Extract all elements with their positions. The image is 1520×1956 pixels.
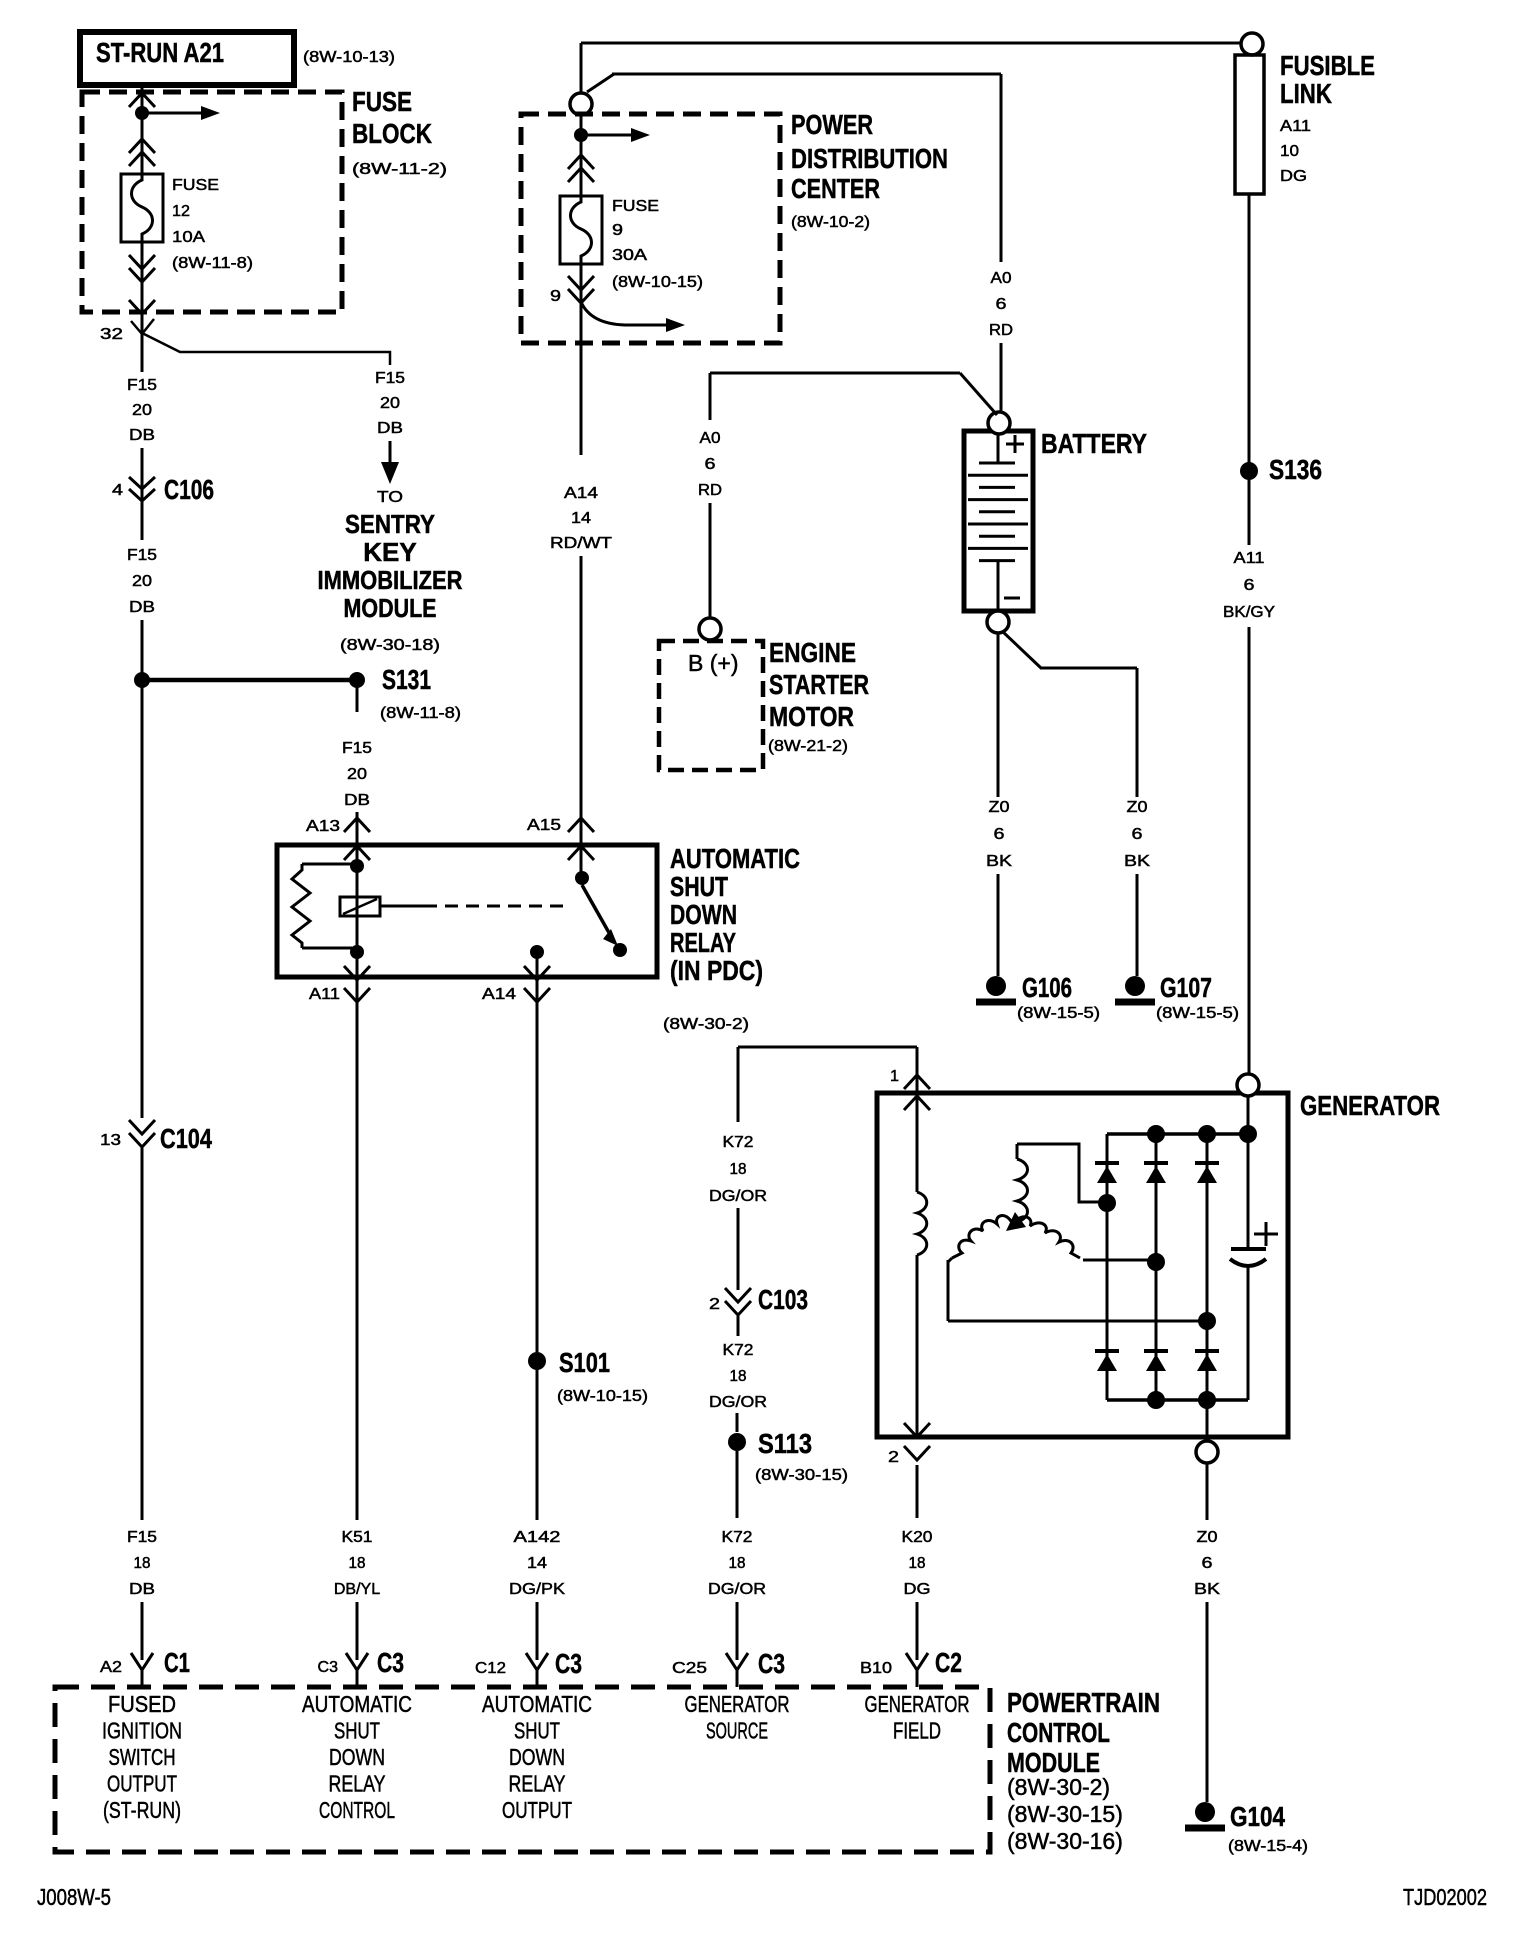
svg-text:14: 14	[571, 510, 591, 527]
svg-text:DOWN: DOWN	[509, 1744, 565, 1770]
svg-text:2: 2	[709, 1296, 720, 1313]
svg-text:POWERTRAIN: POWERTRAIN	[1007, 1687, 1160, 1718]
svg-text:K72: K72	[722, 1529, 753, 1546]
svg-text:Z0: Z0	[1127, 799, 1148, 816]
svg-text:C25: C25	[672, 1660, 707, 1677]
svg-text:13: 13	[100, 1132, 121, 1149]
svg-text:MODULE: MODULE	[344, 593, 437, 623]
svg-text:DB: DB	[129, 1581, 155, 1598]
svg-text:G107: G107	[1160, 972, 1212, 1003]
svg-text:20: 20	[132, 573, 152, 590]
svg-text:6: 6	[1202, 1555, 1213, 1572]
svg-text:4: 4	[112, 482, 123, 499]
svg-text:(8W-11-2): (8W-11-2)	[352, 161, 447, 178]
svg-text:C3: C3	[377, 1647, 404, 1678]
svg-text:Z0: Z0	[989, 799, 1010, 816]
svg-text:(8W-10-13): (8W-10-13)	[303, 49, 395, 66]
svg-text:FUSE: FUSE	[172, 177, 219, 194]
svg-text:6: 6	[996, 296, 1007, 313]
svg-text:14: 14	[527, 1555, 547, 1572]
svg-text:18: 18	[730, 1368, 747, 1385]
svg-text:6: 6	[994, 826, 1005, 843]
svg-text:FUSE: FUSE	[612, 198, 659, 215]
svg-text:SWITCH: SWITCH	[109, 1744, 176, 1770]
svg-text:(8W-15-5): (8W-15-5)	[1017, 1005, 1100, 1022]
svg-text:(8W-10-15): (8W-10-15)	[612, 274, 703, 291]
svg-text:18: 18	[134, 1555, 151, 1572]
svg-text:C3: C3	[555, 1648, 582, 1679]
svg-text:BK: BK	[1124, 853, 1150, 870]
svg-text:A142: A142	[514, 1529, 561, 1546]
svg-text:J008W-5: J008W-5	[37, 1884, 111, 1910]
svg-text:(8W-15-4): (8W-15-4)	[1228, 1838, 1308, 1855]
svg-text:FUSED: FUSED	[108, 1691, 176, 1717]
svg-text:RD: RD	[989, 322, 1013, 339]
svg-text:F15: F15	[127, 377, 157, 394]
svg-text:A0: A0	[700, 430, 721, 447]
svg-text:A13: A13	[306, 818, 340, 835]
svg-text:FIELD: FIELD	[893, 1718, 941, 1744]
svg-text:F15: F15	[375, 370, 405, 387]
svg-text:(8W-30-2): (8W-30-2)	[663, 1016, 749, 1033]
svg-text:SHUT: SHUT	[514, 1718, 560, 1744]
svg-text:(8W-30-15): (8W-30-15)	[755, 1467, 848, 1484]
svg-text:A14: A14	[564, 485, 598, 502]
svg-text:K72: K72	[723, 1134, 754, 1151]
svg-text:DG: DG	[904, 1581, 931, 1598]
svg-text:CONTROL: CONTROL	[1007, 1717, 1110, 1748]
svg-text:A2: A2	[100, 1659, 122, 1676]
svg-text:DOWN: DOWN	[329, 1744, 385, 1770]
svg-text:GENERATOR: GENERATOR	[685, 1691, 790, 1717]
svg-text:SHUT: SHUT	[334, 1718, 380, 1744]
svg-text:G104: G104	[1230, 1801, 1285, 1832]
svg-text:A11: A11	[309, 986, 340, 1003]
svg-text:F15: F15	[342, 740, 372, 757]
svg-text:DG/OR: DG/OR	[709, 1394, 767, 1411]
svg-text:(8W-11-8): (8W-11-8)	[380, 705, 461, 722]
svg-text:30A: 30A	[612, 247, 647, 264]
svg-text:(8W-11-8): (8W-11-8)	[172, 255, 253, 272]
svg-text:B (+): B (+)	[688, 650, 738, 676]
svg-text:TJD02002: TJD02002	[1403, 1884, 1487, 1910]
svg-text:Z0: Z0	[1197, 1529, 1218, 1546]
svg-text:G106: G106	[1022, 972, 1072, 1003]
svg-text:6: 6	[705, 456, 716, 473]
svg-text:ENGINE: ENGINE	[769, 637, 856, 668]
svg-text:OUTPUT: OUTPUT	[107, 1771, 177, 1797]
svg-text:AUTOMATIC: AUTOMATIC	[670, 843, 800, 874]
svg-text:(ST-RUN): (ST-RUN)	[103, 1797, 181, 1823]
svg-text:C1: C1	[164, 1647, 190, 1678]
svg-text:18: 18	[730, 1161, 747, 1178]
svg-text:18: 18	[909, 1555, 926, 1572]
svg-text:S113: S113	[758, 1428, 812, 1459]
svg-text:SENTRY: SENTRY	[345, 509, 435, 539]
svg-text:KEY: KEY	[363, 537, 416, 567]
svg-text:C3: C3	[318, 1659, 339, 1676]
svg-text:A14: A14	[482, 986, 516, 1003]
svg-text:10: 10	[1280, 143, 1299, 160]
svg-text:9: 9	[550, 288, 561, 305]
svg-text:DOWN: DOWN	[670, 899, 737, 930]
svg-text:10A: 10A	[172, 229, 205, 246]
svg-text:RD: RD	[698, 482, 722, 499]
svg-text:9: 9	[612, 222, 623, 239]
svg-text:BK: BK	[986, 853, 1012, 870]
svg-text:DB: DB	[377, 420, 403, 437]
svg-text:K51: K51	[342, 1529, 373, 1546]
svg-text:RELAY: RELAY	[670, 927, 736, 958]
svg-text:32: 32	[100, 326, 123, 343]
svg-text:6: 6	[1132, 826, 1143, 843]
svg-text:(8W-30-15): (8W-30-15)	[1007, 1801, 1123, 1827]
svg-text:FUSE: FUSE	[352, 86, 412, 117]
svg-text:BK/GY: BK/GY	[1223, 604, 1275, 621]
svg-text:(8W-10-2): (8W-10-2)	[791, 214, 870, 231]
svg-text:(IN PDC): (IN PDC)	[670, 955, 763, 986]
svg-text:F15: F15	[127, 547, 157, 564]
svg-text:RELAY: RELAY	[329, 1771, 386, 1797]
svg-text:(8W-30-18): (8W-30-18)	[340, 637, 440, 654]
svg-text:MOTOR: MOTOR	[769, 701, 854, 732]
svg-text:(8W-30-2): (8W-30-2)	[1007, 1774, 1110, 1800]
svg-text:BLOCK: BLOCK	[352, 118, 432, 149]
svg-text:DG/PK: DG/PK	[509, 1581, 565, 1598]
svg-text:(8W-10-15): (8W-10-15)	[557, 1388, 648, 1405]
svg-text:C3: C3	[758, 1648, 785, 1679]
svg-text:C12: C12	[475, 1660, 506, 1677]
svg-text:IGNITION: IGNITION	[102, 1718, 182, 1744]
svg-text:(8W-15-5): (8W-15-5)	[1156, 1005, 1239, 1022]
svg-text:IMMOBILIZER: IMMOBILIZER	[318, 565, 463, 595]
svg-text:CONTROL: CONTROL	[319, 1797, 395, 1823]
svg-text:S131: S131	[382, 664, 431, 695]
svg-text:SHUT: SHUT	[670, 871, 728, 902]
svg-text:TO: TO	[377, 489, 403, 506]
svg-text:2: 2	[888, 1449, 899, 1466]
svg-text:20: 20	[380, 395, 400, 412]
svg-text:SOURCE: SOURCE	[706, 1718, 768, 1744]
svg-text:C104: C104	[160, 1123, 212, 1154]
svg-text:FUSIBLE: FUSIBLE	[1280, 50, 1375, 81]
svg-text:B10: B10	[860, 1660, 892, 1677]
svg-text:18: 18	[729, 1555, 746, 1572]
svg-text:STARTER: STARTER	[769, 669, 869, 700]
svg-text:LINK: LINK	[1280, 78, 1332, 109]
svg-text:GENERATOR: GENERATOR	[865, 1691, 970, 1717]
svg-text:ST-RUN A21: ST-RUN A21	[96, 37, 224, 68]
svg-text:K72: K72	[723, 1342, 754, 1359]
svg-text:S136: S136	[1269, 454, 1322, 485]
svg-text:DISTRIBUTION: DISTRIBUTION	[791, 143, 948, 174]
svg-text:DB/YL: DB/YL	[334, 1581, 380, 1598]
svg-text:DG: DG	[1280, 168, 1307, 185]
svg-text:BATTERY: BATTERY	[1041, 428, 1147, 459]
svg-text:6: 6	[1244, 577, 1255, 594]
svg-text:C106: C106	[164, 474, 214, 505]
svg-text:DB: DB	[129, 427, 155, 444]
svg-text:DB: DB	[129, 599, 155, 616]
svg-text:BK: BK	[1194, 1581, 1220, 1598]
svg-text:A0: A0	[991, 270, 1012, 287]
svg-text:C2: C2	[935, 1647, 962, 1678]
svg-text:CENTER: CENTER	[791, 173, 880, 204]
svg-text:(8W-30-16): (8W-30-16)	[1007, 1828, 1123, 1854]
svg-text:20: 20	[347, 766, 367, 783]
svg-text:A11: A11	[1280, 118, 1311, 135]
svg-text:OUTPUT: OUTPUT	[502, 1797, 572, 1823]
svg-text:20: 20	[132, 402, 152, 419]
svg-text:RD/WT: RD/WT	[550, 535, 612, 552]
svg-text:GENERATOR: GENERATOR	[1300, 1090, 1440, 1121]
svg-text:C103: C103	[758, 1284, 808, 1315]
svg-text:12: 12	[172, 203, 190, 220]
svg-text:A15: A15	[527, 817, 561, 834]
svg-text:DG/OR: DG/OR	[708, 1581, 766, 1598]
svg-text:18: 18	[349, 1555, 366, 1572]
svg-text:DB: DB	[344, 792, 370, 809]
svg-text:DG/OR: DG/OR	[709, 1188, 767, 1205]
svg-text:RELAY: RELAY	[509, 1771, 566, 1797]
svg-text:K20: K20	[902, 1529, 933, 1546]
svg-text:1: 1	[890, 1068, 899, 1085]
svg-text:A11: A11	[1234, 550, 1265, 567]
svg-text:S101: S101	[559, 1347, 610, 1378]
svg-text:AUTOMATIC: AUTOMATIC	[302, 1691, 412, 1717]
svg-text:F15: F15	[127, 1529, 157, 1546]
svg-text:(8W-21-2): (8W-21-2)	[768, 738, 848, 755]
svg-text:POWER: POWER	[791, 109, 873, 140]
svg-text:AUTOMATIC: AUTOMATIC	[482, 1691, 592, 1717]
